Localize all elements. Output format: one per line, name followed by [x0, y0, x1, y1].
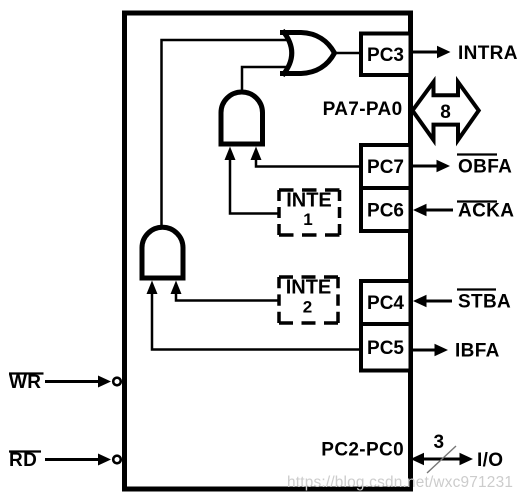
port box PC4: [361, 281, 411, 324]
chip body (8255 Port A block): [125, 13, 411, 489]
OBFA arrowhead: [437, 160, 451, 172]
RD overline: [9, 450, 41, 452]
svg-text:PC6: PC6: [367, 201, 404, 222]
svg-text:ACKA: ACKA: [458, 201, 514, 222]
STB overline: [457, 288, 496, 290]
wire: lower AND output up and right to OR gate top input: [162, 40, 291, 232]
wire: PC7 to upper AND right input: [256, 152, 362, 167]
WR input wire: [45, 380, 100, 383]
svg-text:IBFA: IBFA: [455, 341, 500, 362]
svg-text:INTE: INTE: [286, 277, 332, 299]
or-gate G1: [280, 31, 335, 76]
I/O bidirectional wire: [420, 458, 464, 461]
svg-text:PC2-PC0: PC2-PC0: [321, 440, 404, 461]
and-gate G2 (upper): [221, 92, 263, 144]
ACKA arrowhead: [413, 204, 427, 216]
arrowhead: upper AND right input: [251, 147, 262, 161]
svg-text:PA7-PA0: PA7-PA0: [323, 99, 403, 120]
svg-text:INTRA: INTRA: [458, 43, 518, 64]
IBFA output wire: [413, 349, 436, 352]
INTRA arrowhead: [437, 46, 451, 58]
arrowhead: upper AND left input: [225, 147, 236, 161]
STBA input wire: [425, 300, 452, 303]
OBFA output wire: [413, 165, 438, 168]
ACKA input wire: [425, 209, 453, 212]
svg-text:3: 3: [434, 432, 445, 453]
port box PC5: [361, 324, 411, 371]
I/O right arrowhead: [460, 453, 474, 465]
svg-text:OBFA: OBFA: [458, 157, 512, 178]
wire: upper AND output up and right to OR gate bottom input: [242, 67, 290, 95]
OBF overline: [457, 153, 497, 155]
WR arrowhead: [98, 376, 111, 388]
svg-text:8: 8: [440, 102, 451, 123]
I/O left arrowhead: [411, 453, 425, 465]
svg-text:INTE: INTE: [286, 190, 332, 212]
port box PC6: [361, 188, 411, 231]
arrowhead: lower AND left input: [147, 281, 158, 295]
wire: OR gate output to PC3: [333, 52, 362, 55]
bidirectional bus arrow PA7-PA0 (8): [413, 82, 479, 140]
INTE1 dashed box: [279, 190, 340, 235]
svg-text:https://blog.csdn.net/wxc97123: https://blog.csdn.net/wxc971231: [287, 474, 513, 491]
port box PC7: [361, 145, 411, 188]
svg-text:PC3: PC3: [367, 45, 404, 66]
IBFA arrowhead: [435, 344, 449, 356]
bus width slash: [427, 446, 456, 473]
STBA arrowhead: [413, 295, 427, 307]
INTE2 dashed box: [279, 277, 338, 323]
RD inverter bubble: [113, 456, 121, 464]
wire: INTE2 to lower AND right input: [176, 286, 278, 301]
arrowhead: lower AND right input: [171, 281, 182, 295]
WR overline: [9, 372, 44, 374]
svg-text:I/O: I/O: [477, 450, 503, 471]
svg-text:1: 1: [303, 210, 312, 229]
svg-text:RD: RD: [9, 450, 37, 471]
INTRA output wire: [413, 51, 439, 54]
svg-text:PC7: PC7: [367, 157, 404, 178]
svg-text:PC5: PC5: [367, 338, 404, 359]
ACK overline: [457, 200, 497, 202]
svg-text:2: 2: [303, 298, 312, 317]
port box PC3: [361, 34, 411, 76]
svg-text:STBA: STBA: [458, 292, 511, 313]
svg-text:PC4: PC4: [367, 293, 404, 314]
WR inverter bubble: [113, 378, 121, 386]
wire: PC5 to lower AND left input: [152, 286, 362, 350]
RD arrowhead: [98, 454, 111, 466]
RD input wire: [45, 458, 100, 461]
and-gate G3 (lower): [142, 227, 183, 278]
svg-text:WR: WR: [9, 372, 41, 393]
wire: INTE1 to upper AND left input: [230, 152, 278, 214]
